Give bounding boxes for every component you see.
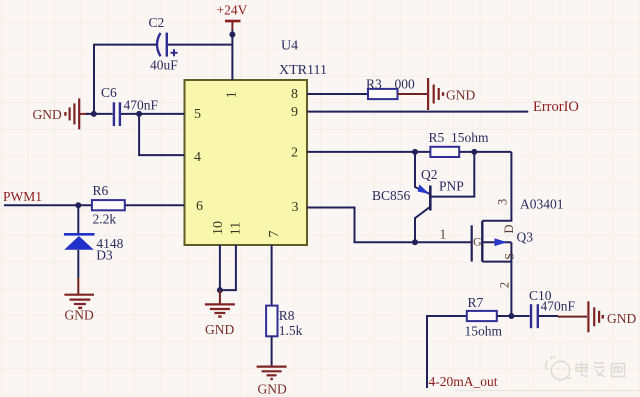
watermark rule [455, 390, 640, 392]
transistor Q2 designator [421, 167, 438, 182]
mosfet Q3 gate pin name G [473, 235, 482, 249]
ground label below pins 10/11 [205, 322, 234, 337]
svg-text:ErrorIO: ErrorIO [533, 99, 579, 115]
ground symbol below D3 [64, 295, 94, 308]
gate pin number 1 [440, 227, 447, 242]
svg-text:5: 5 [194, 107, 201, 122]
transistor Q2 collector wire [415, 207, 430, 242]
transistor Q2 value BC856 [372, 188, 411, 203]
svg-text:A03401: A03401 [520, 197, 564, 212]
pin 7 number [267, 231, 282, 238]
wire pin 10 down [219, 245, 221, 290]
svg-text:C6: C6 [101, 85, 117, 100]
svg-text:15ohm: 15ohm [465, 324, 503, 339]
wire pin 7 down to R8 [271, 245, 273, 306]
mosfet Q3 pin name S [502, 253, 516, 260]
node PWM1 branch [75, 202, 81, 208]
svg-text:+24V: +24V [217, 3, 248, 18]
ground symbol right of R3 [428, 78, 443, 110]
wire junction to ground [219, 290, 221, 304]
diode D3 designator [96, 248, 113, 263]
mosfet Q3 body stub with arrow [482, 238, 511, 246]
resistor R7 [467, 311, 497, 321]
ground label right of R3 [446, 87, 475, 102]
resistor R8 value 1.5k [279, 323, 303, 338]
watermark logo icon [546, 356, 572, 380]
mosfet Q3 drain stub [482, 152, 511, 221]
IC U4 body [185, 80, 308, 245]
svg-text:2: 2 [498, 282, 512, 288]
IC U4 designator label [281, 39, 298, 54]
wire C10 to ground [539, 315, 587, 318]
ground symbol below pins 10/11 [205, 304, 235, 316]
resistor R8 designator [279, 308, 295, 323]
capacitor C2 designator [149, 15, 165, 30]
wire R6 to pin 6 [125, 204, 185, 206]
+24V power port [217, 3, 248, 31]
svg-text:GND: GND [607, 311, 636, 326]
svg-text:Q3: Q3 [517, 230, 534, 245]
svg-text:S: S [502, 253, 516, 260]
node after C6 [136, 111, 142, 117]
svg-text:8: 8 [291, 87, 298, 102]
wire R7 to C10 [497, 315, 530, 317]
wire pin 3 to gate [307, 208, 471, 243]
svg-text:R5 15ohm: R5 15ohm [429, 130, 490, 145]
pin 8 number [291, 87, 298, 102]
wire C6 to pin 5 [121, 113, 185, 115]
ground label below R8 [258, 381, 287, 396]
node on +24V column [229, 32, 235, 38]
capacitor C10 value 470nF [541, 299, 576, 314]
svg-text:Q2: Q2 [421, 167, 438, 182]
pin 10 number [211, 221, 226, 235]
svg-text:R7: R7 [468, 295, 484, 310]
svg-text:470nF: 470nF [124, 98, 159, 113]
mosfet Q3 designator [517, 230, 534, 245]
transistor Q2 base bar [429, 186, 432, 211]
node collector / gate junction [412, 239, 418, 245]
svg-text:PNP: PNP [439, 178, 464, 193]
svg-text:D: D [502, 224, 516, 233]
resistor R6 value 2.2k [93, 212, 117, 227]
capacitor C6 value 470nF [124, 98, 159, 113]
wire output corner to R7 [427, 316, 467, 388]
resistor R3 value 000 [395, 76, 416, 91]
svg-text:10: 10 [211, 221, 226, 235]
wire GND row to C6 [86, 113, 113, 115]
svg-text:R6: R6 [93, 183, 109, 198]
transistor Q2 emitter wire [415, 152, 430, 194]
svg-text:1: 1 [440, 227, 447, 242]
svg-text:R8: R8 [279, 308, 295, 323]
ground symbol left (near C6) [65, 98, 88, 129]
svg-text:40uF: 40uF [150, 58, 178, 73]
pin 3 number [292, 200, 299, 215]
svg-text:BC856: BC856 [372, 188, 411, 203]
wire branch to pin 4 [139, 114, 184, 155]
wire PWM node down to D3 [77, 205, 79, 234]
wire source column down [510, 262, 512, 316]
net label PWM1 [3, 189, 42, 204]
ground label left [33, 107, 62, 122]
wire R5 right to drain column [459, 151, 511, 153]
pin 9 number [291, 105, 298, 120]
mosfet Q3 source stub [482, 242, 511, 261]
capacitor C6 designator [101, 85, 117, 100]
svg-text:470nF: 470nF [541, 299, 576, 314]
svg-text:3: 3 [292, 200, 299, 215]
resistor R3 [368, 89, 398, 99]
wire +24V column to IC pin 1 [231, 30, 233, 80]
svg-text:4-20mA_out: 4-20mA_out [429, 374, 498, 389]
pin 1 number [225, 91, 240, 98]
resistor R7 designator [468, 295, 484, 310]
svg-text:GND: GND [205, 322, 234, 337]
capacitor C2 value 40uF [150, 58, 178, 73]
transistor Q2 type PNP [439, 178, 464, 193]
diode D3 value 4148 [96, 236, 123, 251]
capacitor C2 [157, 33, 178, 57]
mosfet Q3 source pin number 2 [498, 282, 512, 288]
capacitor C10 [531, 304, 538, 328]
ground label right of C10 [607, 311, 636, 326]
node R5 right [471, 149, 477, 155]
node at GND / C2 branch [91, 111, 97, 117]
wire C2 left segment [94, 45, 156, 114]
wire pin 2 to R5 [307, 151, 430, 153]
pin 2 number [291, 145, 298, 160]
svg-text:G: G [473, 235, 482, 249]
ground symbol right of C10 [588, 301, 602, 332]
pin 4 number [194, 150, 201, 165]
capacitor C6 [114, 102, 120, 126]
svg-text:XTR111: XTR111 [279, 63, 327, 78]
pin 5 number [194, 107, 201, 122]
svg-text:1: 1 [225, 91, 240, 98]
pin 11 number [229, 222, 244, 235]
svg-text:GND: GND [258, 381, 287, 396]
mosfet Q3 gate bar [471, 225, 473, 261]
ground label below D3 [65, 308, 94, 323]
mosfet Q3 drain pin number 3 [496, 199, 510, 205]
transistor Q2 base wire [430, 152, 474, 197]
net label ErrorIO [533, 99, 579, 115]
resistor R5 [430, 147, 459, 157]
wire pin 8 to R3 [307, 93, 368, 95]
svg-text:R3: R3 [366, 76, 382, 91]
svg-text:2: 2 [291, 145, 298, 160]
node source / R7 / C10 [508, 313, 514, 319]
wire PWM1 to R6 [4, 204, 92, 206]
svg-text:2.2k: 2.2k [93, 212, 117, 227]
wire pin 11 down and left [220, 245, 236, 290]
wire R8 to ground [271, 336, 273, 366]
IC U4 value label XTR111 [279, 63, 327, 78]
wire pin 9 ErrorIO net [307, 111, 528, 113]
transistor Q2 emitter arrow [418, 185, 430, 195]
svg-text:C2: C2 [149, 15, 165, 30]
node R5 left [412, 149, 418, 155]
svg-text:4: 4 [194, 150, 201, 165]
svg-text:3: 3 [496, 199, 510, 205]
mosfet Q3 pin name D [502, 224, 516, 233]
svg-text:GND: GND [446, 87, 475, 102]
wire D3 to ground [77, 250, 79, 294]
svg-text:GND: GND [33, 107, 62, 122]
wire R3 to ground [398, 93, 428, 95]
resistor R6 [92, 200, 125, 210]
net label 4-20mA_out [429, 374, 498, 389]
svg-text:7: 7 [267, 231, 282, 238]
resistor R6 designator [93, 183, 109, 198]
wire C2 right segment [168, 44, 233, 46]
pin 6 number [196, 199, 203, 214]
watermark text 电气圈 [576, 362, 625, 377]
svg-text:D3: D3 [96, 248, 113, 263]
mosfet Q3 value A03401 [520, 197, 564, 212]
resistor R8 [266, 306, 277, 337]
mosfet Q3 channel bar [481, 221, 483, 262]
svg-text:GND: GND [65, 308, 94, 323]
capacitor C10 designator [529, 288, 552, 303]
svg-text:11: 11 [229, 222, 244, 235]
svg-text:000: 000 [395, 76, 416, 91]
resistor R3 designator [366, 76, 382, 91]
resistor R7 value 15ohm [465, 324, 503, 339]
node pins 10/11 junction [217, 287, 223, 293]
ground symbol below R8 [257, 367, 287, 379]
diode D3 [64, 234, 95, 250]
resistor R5 label R5 15ohm [429, 130, 490, 145]
svg-text:PWM1: PWM1 [3, 189, 42, 204]
svg-text:9: 9 [291, 105, 298, 120]
svg-text:U4: U4 [281, 39, 298, 54]
svg-text:1.5k: 1.5k [279, 323, 303, 338]
svg-text:6: 6 [196, 199, 203, 214]
